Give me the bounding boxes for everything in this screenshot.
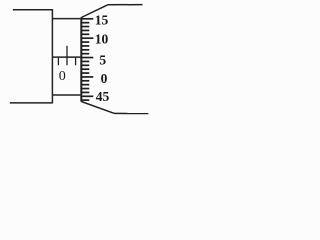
datum line (52, 56, 80, 58)
main scale lower tick 1 (57, 57, 59, 65)
frame top edge (13, 9, 53, 11)
main scale lower tick 3 (75, 57, 77, 65)
thimble bottom bevel (81, 102, 114, 114)
svg-text:0: 0 (59, 69, 66, 84)
thimble tick 10 (major) (81, 37, 93, 39)
thimble minor tick (81, 41, 89, 43)
thimble minor tick (81, 84, 89, 86)
main scale lower tick 2 (66, 57, 68, 65)
svg-text:10: 10 (95, 32, 109, 47)
thimble minor tick (81, 72, 89, 74)
thimble minor tick (81, 22, 89, 24)
thimble minor tick (81, 26, 89, 28)
thimble left edge (80, 17, 82, 101)
background (0, 0, 153, 118)
frame right edge (51, 9, 53, 103)
thimble top bevel (81, 5, 107, 18)
thimble tick 45 (major) (81, 95, 93, 97)
thimble minor tick (81, 91, 89, 93)
thimble tick 5 (major) (81, 57, 93, 59)
svg-text:15: 15 (95, 12, 109, 27)
thimble tick 0 (major) (81, 76, 93, 78)
thimble minor tick (81, 99, 89, 101)
svg-text:5: 5 (99, 52, 106, 67)
thimble minor tick (81, 80, 89, 82)
thimble minor tick (81, 64, 89, 66)
frame bottom edge (10, 102, 53, 104)
thimble minor tick (81, 33, 89, 35)
svg-text:0: 0 (101, 71, 108, 86)
thimble minor tick (81, 29, 89, 31)
thimble bottom edge (114, 112, 148, 114)
svg-text:45: 45 (96, 89, 110, 104)
thimble tick 15 (major) (81, 18, 93, 20)
thimble minor tick (81, 60, 89, 62)
sleeve top edge (52, 18, 80, 20)
main scale upper tick (66, 46, 68, 57)
thimble minor tick (81, 53, 89, 55)
sleeve bottom edge (52, 94, 80, 96)
thimble top edge (108, 4, 143, 6)
thimble minor tick (81, 49, 89, 51)
thimble minor tick (81, 68, 89, 70)
thimble minor tick (81, 88, 89, 90)
thimble minor tick (81, 45, 89, 47)
